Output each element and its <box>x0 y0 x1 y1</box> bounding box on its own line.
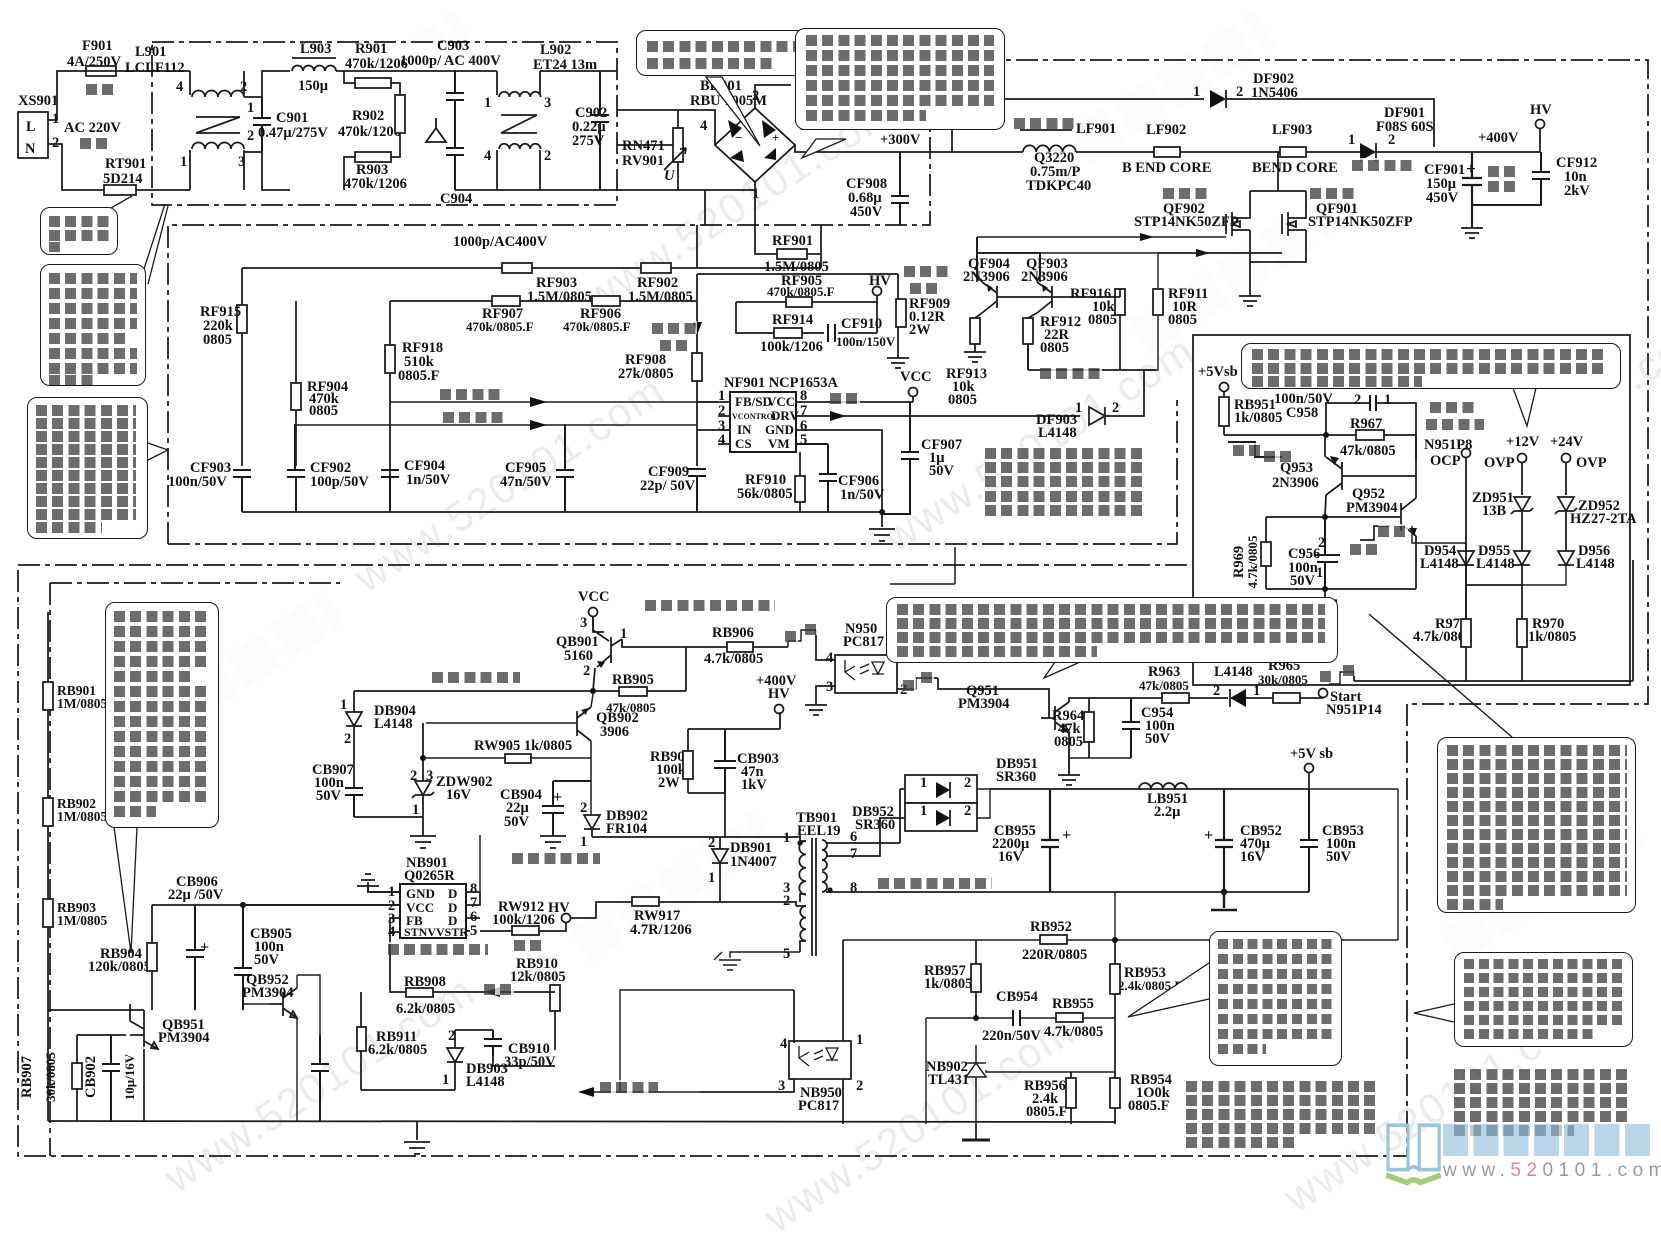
resistor RB904 <box>88 905 157 1010</box>
svg-text:2W: 2W <box>658 775 680 791</box>
svg-text:56k/0805: 56k/0805 <box>737 486 793 502</box>
resistor RB954 <box>1110 1018 1172 1124</box>
svg-text:Q0265R: Q0265R <box>404 868 455 884</box>
svg-text:DRV: DRV <box>771 408 799 423</box>
svg-text:1: 1 <box>412 802 419 818</box>
svg-text:STP14NK50ZFP: STP14NK50ZFP <box>1134 214 1239 230</box>
svg-text:+5V sb: +5V sb <box>1290 746 1333 762</box>
svg-text:C958: C958 <box>1286 405 1318 421</box>
svg-text:L4148: L4148 <box>1038 425 1077 441</box>
capacitor CF907 <box>882 402 962 514</box>
resistor RB901 <box>43 682 107 711</box>
diode DF901 PFC rectifier <box>1348 105 1434 161</box>
svg-text:6.2k/0805: 6.2k/0805 <box>368 1042 427 1058</box>
svg-text:470k/1206: 470k/1206 <box>338 124 401 140</box>
resistor R970 <box>1517 585 1576 681</box>
resistor RB902 <box>43 796 107 826</box>
svg-text:1: 1 <box>580 834 587 850</box>
svg-text:450V: 450V <box>1426 190 1459 206</box>
resistor RF918 <box>385 301 443 512</box>
resistor R965 <box>1258 658 1323 703</box>
wire L903 to C903 <box>336 70 455 72</box>
svg-text:RB906: RB906 <box>712 625 754 641</box>
svg-text:1k/0805: 1k/0805 <box>1234 410 1282 426</box>
label PFC激励 <box>1040 366 1102 379</box>
svg-text:470k/1206: 470k/1206 <box>345 56 408 72</box>
label 开关 steps small <box>785 629 798 642</box>
wire R964/C954 bottom row <box>1069 746 1131 775</box>
svg-text:470k/0805.F: 470k/0805.F <box>767 284 835 299</box>
logo CJK text <box>1443 1124 1655 1156</box>
label 开关管 QF902 <box>1163 186 1208 199</box>
zener ZD951 <box>1472 490 1533 551</box>
EMI section border box <box>152 42 617 205</box>
svg-text:VSTR: VSTR <box>436 925 468 939</box>
transistor QB952 <box>242 972 297 1018</box>
svg-text:1.5M/0805: 1.5M/0805 <box>527 289 592 305</box>
svg-text:100k/1206: 100k/1206 <box>760 339 823 355</box>
bottom rail of protection box <box>1354 560 1633 681</box>
resistor RW912 <box>480 899 566 935</box>
lower standby box border <box>50 583 340 1156</box>
svg-text:30k/0805: 30k/0805 <box>43 1052 58 1102</box>
svg-text:3: 3 <box>238 154 245 170</box>
resistor RF911 <box>1144 253 1282 370</box>
+24V OVP terminal <box>1550 434 1607 495</box>
label secondary rectifier <box>977 789 990 818</box>
svg-text:SR360: SR360 <box>855 817 895 833</box>
wire EMI to varistor node <box>617 110 678 145</box>
tail of onoff-ctrl callout <box>1044 662 1080 678</box>
VCC terminal <box>796 369 931 402</box>
svg-text:FR104: FR104 <box>606 821 647 837</box>
capacitor C958 <box>1274 391 1391 421</box>
svg-text:4: 4 <box>718 432 725 448</box>
svg-text:C903: C903 <box>437 38 469 54</box>
transistor QF903 <box>1021 253 1068 318</box>
resistor RB951 <box>1219 397 1282 435</box>
resistor RB953 <box>1110 940 1182 1018</box>
tail of mains-rectifier callout <box>802 139 846 158</box>
resistor RB906 <box>704 625 788 667</box>
svg-text:R902: R902 <box>352 108 384 124</box>
wire to zener column <box>354 816 423 818</box>
resistor RB909 <box>650 729 693 793</box>
callout on/off control <box>886 597 1338 663</box>
label HV取样输入 <box>440 387 502 400</box>
svg-text:0.47μ/275V: 0.47μ/275V <box>258 125 328 141</box>
IC NF901 <box>697 375 839 452</box>
transistor QF904 <box>963 237 1010 318</box>
svg-text:HV: HV <box>768 686 790 702</box>
gate drive wires with arrows <box>977 237 1282 253</box>
optocoupler NB950 <box>700 940 863 1124</box>
transformer TB901 <box>783 810 857 962</box>
diode D954 <box>1420 543 1474 619</box>
svg-text:450V: 450V <box>850 204 883 220</box>
svg-text:1: 1 <box>340 697 347 713</box>
svg-text:GND: GND <box>406 886 435 901</box>
svg-text:LF902: LF902 <box>1146 122 1186 138</box>
svg-text:1: 1 <box>1348 132 1355 148</box>
svg-text:+: + <box>553 789 562 806</box>
label PFC整流 <box>1352 158 1412 171</box>
capacitor CF905 <box>500 424 574 512</box>
svg-text:TL431: TL431 <box>928 1072 969 1088</box>
svg-text:50V: 50V <box>254 952 280 968</box>
svg-text:4: 4 <box>700 118 707 134</box>
svg-text:0805.F: 0805.F <box>398 368 440 384</box>
svg-text:IN: IN <box>737 422 752 437</box>
wire top rail to L902 <box>455 70 497 72</box>
label VCC产生电路 <box>512 851 600 864</box>
diode DF902 <box>1193 71 1434 147</box>
svg-text:5: 5 <box>470 923 477 939</box>
svg-text:HV: HV <box>869 273 891 289</box>
svg-text:VCC: VCC <box>578 589 609 605</box>
svg-text:VCC: VCC <box>900 369 931 385</box>
svg-text:6.2k/0805: 6.2k/0805 <box>396 1001 455 1017</box>
base node wire Q952 <box>1266 516 1399 518</box>
svg-text:50V: 50V <box>1145 731 1171 747</box>
capacitor CB953 <box>1300 789 1364 892</box>
label 开关管 QF901 <box>1310 186 1355 199</box>
label AC 220V input <box>64 120 121 136</box>
svg-text:0805: 0805 <box>948 392 977 408</box>
diode pack DB952 <box>852 803 977 833</box>
capacitor CF912 <box>1472 152 1597 205</box>
label 正常/保护 step1 <box>1233 443 1263 456</box>
capacitor CB952 <box>1204 789 1282 892</box>
transistor Q952 <box>1346 476 1417 589</box>
resistor RF909 over-current sense <box>896 274 950 358</box>
svg-text:PM3904: PM3904 <box>1346 500 1398 516</box>
svg-text:2N3906: 2N3906 <box>1021 269 1068 285</box>
svg-text:L4148: L4148 <box>1420 556 1459 572</box>
VCC rail wire <box>354 647 686 691</box>
diode D956 <box>1522 543 1615 585</box>
ground under Q951 <box>1058 775 1080 785</box>
svg-text:1k/0805: 1k/0805 <box>924 976 972 992</box>
svg-text:22μ /50V: 22μ /50V <box>168 887 224 903</box>
arrow overcurrent <box>693 322 702 334</box>
output rail <box>990 788 1309 790</box>
svg-text:2: 2 <box>1213 683 1220 699</box>
svg-text:VCC: VCC <box>767 394 795 409</box>
source wires to ground <box>1250 230 1306 296</box>
capacitor CF909 <box>640 464 706 512</box>
svg-text:PC817: PC817 <box>843 634 884 650</box>
svg-text:0805: 0805 <box>203 332 232 348</box>
varistor RN471 RV901 <box>622 110 686 190</box>
OCP terminal <box>1430 449 1471 620</box>
svg-text:−: − <box>735 130 742 145</box>
wire RF905 row with HV <box>697 273 898 302</box>
label 保护/正常 q952 <box>1378 524 1408 537</box>
svg-text:1: 1 <box>856 1032 863 1048</box>
zener ZDW902 <box>410 723 492 836</box>
diode D955 <box>1466 543 1530 585</box>
svg-text:2: 2 <box>580 800 587 816</box>
svg-text:100n/150V: 100n/150V <box>836 334 896 349</box>
resistor R971 <box>1413 616 1472 681</box>
tail of regulation callout <box>1128 963 1209 1017</box>
svg-text:+: + <box>200 939 209 956</box>
label 储能电感 <box>1014 116 1074 129</box>
svg-text:R901: R901 <box>355 41 387 57</box>
RB909/CB903 loop wires <box>688 729 780 837</box>
capacitor CB902 <box>83 1035 137 1121</box>
svg-text:+: + <box>1466 159 1476 178</box>
svg-text:0805: 0805 <box>1088 312 1117 328</box>
svg-text:1kV: 1kV <box>741 777 767 793</box>
svg-text:16V: 16V <box>998 849 1024 865</box>
tail of standby callout <box>1414 1004 1454 1022</box>
resistor R967 <box>1340 416 1396 459</box>
transistor QB951 <box>48 1004 210 1121</box>
svg-text:5160: 5160 <box>564 648 593 664</box>
ground bar under C956 <box>1314 599 1337 602</box>
svg-text:16V: 16V <box>446 787 472 803</box>
svg-text:2: 2 <box>52 135 59 151</box>
svg-text:12k/0805: 12k/0805 <box>510 969 566 985</box>
svg-text:2: 2 <box>856 1078 863 1094</box>
label 过电流取样 <box>904 264 949 277</box>
svg-text:PM3904: PM3904 <box>158 1030 210 1046</box>
svg-text:+: + <box>1062 827 1071 844</box>
wire QB901 collector to RB906 <box>622 639 727 647</box>
HV terminal startup <box>548 900 571 923</box>
85Vsb sample vertical <box>1115 789 1398 940</box>
on/off step <box>788 630 816 647</box>
wire L901 to C901 top/bottom <box>244 71 290 190</box>
transistor Q951 <box>958 683 1162 775</box>
capacitor CF902 <box>287 424 369 512</box>
bottom rail of PFC control <box>242 511 882 513</box>
step protect/normal small <box>1360 526 1390 540</box>
svg-text:RN471: RN471 <box>622 138 665 154</box>
diode DB903 <box>361 1028 508 1090</box>
callout thyristor protection <box>1437 737 1636 913</box>
svg-text:VM: VM <box>768 436 790 451</box>
svg-text:2: 2 <box>1236 84 1243 100</box>
ground under ZDW902 <box>410 836 436 848</box>
resistor RB905 <box>606 672 656 715</box>
optocoupler N950 <box>816 621 907 705</box>
svg-text:L: L <box>26 119 36 135</box>
svg-text:C901: C901 <box>276 110 308 126</box>
mains sampling wire <box>296 420 697 430</box>
resistor R969 vertical w rotated label <box>1231 517 1271 589</box>
wire NB901 D pins to transformer <box>479 835 481 892</box>
transistor QB902 <box>426 694 639 815</box>
diode D953 <box>1214 651 1273 707</box>
diode pack DB951 <box>905 756 1038 803</box>
svg-text:OVP: OVP <box>1484 455 1515 471</box>
thermistor RT901 <box>103 156 146 195</box>
resistor RF910 <box>737 452 805 512</box>
svg-text:4.7k/0805: 4.7k/0805 <box>1044 1024 1103 1040</box>
svg-text:L4148: L4148 <box>1576 556 1615 572</box>
svg-text:2: 2 <box>1112 400 1119 416</box>
label 滤波电容 <box>1488 164 1518 177</box>
svg-text:33p/50V: 33p/50V <box>504 1054 556 1070</box>
bead LF902 <box>1122 122 1211 176</box>
svg-text:2: 2 <box>240 79 247 95</box>
svg-text:B END CORE: B END CORE <box>1122 160 1211 176</box>
svg-text:2: 2 <box>344 731 351 747</box>
svg-text:2: 2 <box>783 893 790 909</box>
svg-text:2N3906: 2N3906 <box>963 269 1010 285</box>
ground under RF913 <box>964 352 986 362</box>
svg-text:470k/0805.F: 470k/0805.F <box>563 319 631 334</box>
svg-text:2: 2 <box>583 663 590 679</box>
svg-text:1: 1 <box>708 870 715 886</box>
svg-text:STNV: STNV <box>404 925 436 939</box>
svg-text:3: 3 <box>580 615 587 631</box>
label 市电取样输入 <box>443 410 503 423</box>
resistor R901 <box>344 41 408 95</box>
VCC terminal QB901 <box>578 589 609 632</box>
MOSFET QF901 <box>1282 191 1413 236</box>
capacitor CB909 <box>311 1035 329 1121</box>
svg-text:3: 3 <box>826 679 833 695</box>
ground at rail end <box>869 511 895 541</box>
svg-text:1: 1 <box>247 100 254 116</box>
+400V HV terminal <box>756 673 797 714</box>
svg-text:50V: 50V <box>316 788 342 804</box>
capacitor C903 <box>400 38 501 190</box>
svg-text:22p/ 50V: 22p/ 50V <box>640 478 696 494</box>
svg-text:F08S 60S: F08S 60S <box>1376 119 1434 135</box>
svg-text:470k/1206: 470k/1206 <box>344 176 407 192</box>
svg-text:RF901: RF901 <box>772 233 813 249</box>
svg-text:150μ: 150μ <box>298 78 329 94</box>
MOSFET QF902 <box>1134 191 1250 236</box>
svg-text:N951P8: N951P8 <box>1424 437 1472 453</box>
capacitor CB910 <box>455 1030 556 1070</box>
svg-text:RB955: RB955 <box>1052 996 1094 1012</box>
capacitor C901 <box>247 97 328 152</box>
svg-text:47k/0805: 47k/0805 <box>1340 443 1396 459</box>
wire AC L to fuse <box>48 71 86 120</box>
svg-text:1N4007: 1N4007 <box>730 854 777 870</box>
svg-text:+: + <box>1204 827 1213 844</box>
label 启动 <box>514 938 544 951</box>
resistor RB956 <box>1024 1072 1076 1124</box>
svg-text:CF910: CF910 <box>841 316 882 332</box>
svg-text:1k/0805: 1k/0805 <box>1528 629 1576 645</box>
wire PSON above callout <box>890 547 955 584</box>
transistor QB901 <box>556 617 627 691</box>
svg-text:16V: 16V <box>1240 849 1266 865</box>
svg-text:4: 4 <box>780 1036 787 1052</box>
svg-text:BEND CORE: BEND CORE <box>1252 160 1338 176</box>
svg-text:+5Vsb: +5Vsb <box>1198 364 1238 380</box>
svg-text:120k/0805: 120k/0805 <box>88 959 151 975</box>
svg-text:100n/50V: 100n/50V <box>168 474 227 490</box>
label 熔丝 <box>86 82 116 95</box>
svg-text:1: 1 <box>442 1072 449 1088</box>
svg-text:PM3904: PM3904 <box>242 985 294 1001</box>
resistor RF908 <box>618 352 702 382</box>
svg-text:3: 3 <box>544 95 551 111</box>
svg-text:1: 1 <box>1075 400 1082 416</box>
label 输入 <box>80 136 110 149</box>
capacitor C956 <box>1288 517 1340 589</box>
resistor R902 <box>338 95 405 140</box>
resistor RF903 <box>502 263 592 305</box>
capacitor C954 <box>1122 698 1175 758</box>
svg-text:RW905 1k/0805: RW905 1k/0805 <box>474 738 572 754</box>
drain wires MOSFETs to +300/+400 rails <box>1250 152 1306 191</box>
svg-text:47k/0805: 47k/0805 <box>1139 678 1189 693</box>
tail of undervoltage callout <box>114 827 137 953</box>
svg-text:L4148: L4148 <box>1476 556 1515 572</box>
svg-text:CB902: CB902 <box>83 1056 99 1098</box>
svg-text:1n/50V: 1n/50V <box>406 472 451 488</box>
svg-text:C904: C904 <box>440 191 472 207</box>
svg-text:D: D <box>448 886 457 901</box>
svg-text:STP14NK50ZFP: STP14NK50ZFP <box>1308 214 1413 230</box>
svg-text:GND: GND <box>765 422 794 437</box>
wire LF901 to LF902 <box>1076 151 1154 153</box>
svg-text:NF901 NCP1653A: NF901 NCP1653A <box>724 375 839 391</box>
capacitor CB954 <box>926 989 1115 1124</box>
resistor RW905 <box>423 738 591 763</box>
svg-text:N951P14: N951P14 <box>1326 702 1382 718</box>
resistor RF916 <box>1052 286 1125 370</box>
resistor RF906 <box>563 296 697 334</box>
+300V rail <box>795 132 1023 152</box>
label 二次整流滤波电路 <box>878 876 992 889</box>
svg-text:13B: 13B <box>1482 503 1507 519</box>
svg-text:AC 220V: AC 220V <box>64 120 121 136</box>
capacitor CB906 <box>168 874 224 1010</box>
callout over-voltage detect <box>1241 343 1621 389</box>
overcurrent input labels <box>1424 437 1472 453</box>
regulation control wire <box>578 990 794 1097</box>
svg-text:PC817: PC817 <box>798 1098 839 1114</box>
diode DF903 <box>1036 370 1155 441</box>
label 副电源厚膜电路 <box>388 942 488 955</box>
svg-text:2kV: 2kV <box>1564 183 1590 199</box>
resistor RB955 <box>1044 996 1103 1040</box>
svg-text:F901: F901 <box>82 38 113 54</box>
resistor RF913 <box>946 318 987 408</box>
wire main vertical from bridge to NF901 <box>697 190 705 466</box>
secondary wires <box>826 789 960 892</box>
secondary label wire <box>900 830 905 832</box>
svg-text:1: 1 <box>180 154 187 170</box>
svg-text:L903: L903 <box>300 41 331 57</box>
svg-text:0805.F: 0805.F <box>1128 1098 1170 1114</box>
IC NB901 <box>243 855 480 940</box>
svg-text:2W: 2W <box>909 322 931 338</box>
wire Q952 base from detection diodes <box>1412 526 1466 543</box>
step symbol normal/protect <box>1228 442 1282 457</box>
svg-text:50V: 50V <box>1290 573 1316 589</box>
svg-text:1: 1 <box>920 803 927 819</box>
svg-text:OCP: OCP <box>1430 453 1461 469</box>
resistor RB957 <box>924 940 981 1018</box>
svg-text:1: 1 <box>1384 392 1391 408</box>
repair tip P3 (standby fault) <box>1454 1068 1630 1080</box>
svg-text:1.5M/0805: 1.5M/0805 <box>628 289 693 305</box>
svg-text:1: 1 <box>920 775 927 791</box>
resistor RF905 <box>767 273 835 307</box>
label C904 <box>440 191 472 207</box>
